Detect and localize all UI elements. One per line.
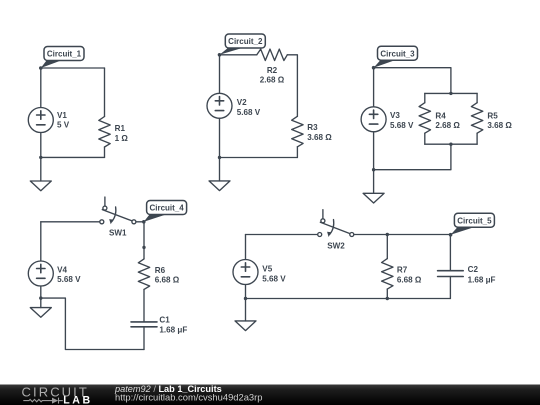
wire V1 top lead <box>40 68 42 108</box>
svg-text:Circuit_5: Circuit_5 <box>457 216 492 225</box>
wire C2 top lead <box>449 235 451 271</box>
wire switch to rail right circuit5 <box>354 234 451 236</box>
callout Circuit_5 <box>451 213 495 235</box>
svg-text:5 V: 5 V <box>57 121 70 130</box>
svg-text:R4: R4 <box>435 111 446 120</box>
voltage source V5 <box>233 260 258 285</box>
svg-text:Circuit_1: Circuit_1 <box>47 50 82 59</box>
callout Circuit_1 <box>41 47 84 69</box>
wire R2 right stub and corner <box>287 55 297 117</box>
ground circuit1 <box>40 157 42 181</box>
svg-text:5.68 V: 5.68 V <box>262 274 286 283</box>
callout Circuit_3 <box>374 46 418 67</box>
svg-text:R5: R5 <box>487 111 498 120</box>
ground circuit4 <box>40 298 42 308</box>
wire C1 bottom to rail <box>143 327 145 350</box>
wire node down to R6 <box>143 222 145 259</box>
svg-text:1.68 μF: 1.68 μF <box>159 326 187 335</box>
svg-text:R2: R2 <box>267 66 278 75</box>
svg-text:5.68 V: 5.68 V <box>57 275 81 284</box>
voltage source V1 <box>28 108 53 133</box>
resistor R5 <box>471 103 482 134</box>
svg-text:R6: R6 <box>155 266 166 275</box>
node dot anchor circuit1 <box>39 66 43 70</box>
node dot bottom-left circuit1 <box>39 156 42 159</box>
wire top rail left circuit4 <box>41 221 100 223</box>
wire V5 top lead <box>245 235 247 260</box>
node dot bracket top circuit3 <box>449 92 452 95</box>
wire bottom rail circuit4 <box>41 298 144 349</box>
wire bottom rail circuit5 <box>246 298 451 300</box>
resistor R6 <box>138 259 149 290</box>
wire V2 top lead <box>219 55 221 94</box>
wire R4 top stub <box>424 93 426 102</box>
svg-text:Circuit_2: Circuit_2 <box>228 37 263 46</box>
svg-text:1.68 μF: 1.68 μF <box>468 275 496 284</box>
wire bottom bracket parallel <box>425 143 477 145</box>
svg-text:5.68 V: 5.68 V <box>390 121 414 130</box>
node dot R7 bottom <box>386 297 389 300</box>
resistor R1 <box>99 117 110 148</box>
svg-text:2.68 Ω: 2.68 Ω <box>435 121 460 130</box>
svg-text:SW1: SW1 <box>109 228 127 237</box>
wire R4 bottom stub <box>424 133 426 144</box>
wire top rail circuit3 <box>374 68 451 94</box>
wire R5 bottom stub <box>476 133 478 144</box>
wire bottom rail circuit1 <box>41 156 105 158</box>
node dot V5 bottom <box>244 297 247 300</box>
wire V4 top lead <box>40 222 42 261</box>
voltage source V2 <box>207 93 232 118</box>
svg-text:V4: V4 <box>57 265 67 274</box>
svg-text:C1: C1 <box>159 315 170 324</box>
wire R7 bottom stub <box>386 289 388 298</box>
wire top bracket parallel <box>425 92 477 94</box>
node dot bottom-left circuit2 <box>218 156 221 159</box>
voltage source V3 <box>361 107 386 132</box>
wire R6 to C1 <box>143 289 145 322</box>
wire R5 top stub <box>476 93 478 102</box>
wire V3 bottom lead <box>373 132 375 170</box>
callout Circuit_4 <box>144 201 187 222</box>
wire V5 bottom lead <box>245 285 247 299</box>
resistor R3 <box>292 116 303 147</box>
capacitor C1 <box>131 322 157 327</box>
svg-text:R3: R3 <box>307 123 318 132</box>
switch SW1 <box>100 197 136 224</box>
svg-text:6.68 Ω: 6.68 Ω <box>397 275 422 284</box>
ground circuit5 <box>245 299 247 321</box>
wire R1 bottom stub <box>104 147 106 157</box>
voltage source V4 <box>28 261 53 286</box>
svg-text:3.68 Ω: 3.68 Ω <box>307 133 332 142</box>
wire R7 top stub <box>386 235 388 259</box>
switch SW2 <box>318 210 354 237</box>
wire right branch down to R1 <box>104 68 106 117</box>
node dot anchor circuit3 <box>372 66 376 70</box>
wire V1 bottom lead <box>40 133 42 158</box>
resistor R2 <box>257 49 288 60</box>
svg-text:1 Ω: 1 Ω <box>115 134 129 143</box>
wire V3 top lead <box>373 68 375 107</box>
wire bottom rail circuit3 <box>374 144 451 170</box>
wire C2 bottom lead <box>449 277 451 299</box>
node dot anchor circuit2 <box>218 53 222 57</box>
svg-text:2.68 Ω: 2.68 Ω <box>260 76 285 85</box>
svg-text:SW2: SW2 <box>327 241 345 250</box>
wire R3 bottom stub <box>296 147 298 158</box>
svg-text:V3: V3 <box>390 111 400 120</box>
node dot bracket bottom circuit3 <box>449 143 452 146</box>
svg-text:5.68 V: 5.68 V <box>237 108 261 117</box>
svg-text:V5: V5 <box>262 265 272 274</box>
wire top rail circuit1 <box>41 67 105 69</box>
node dot R7 top <box>386 233 389 236</box>
capacitor C2 <box>438 271 464 277</box>
node dot anchor circuit4 <box>142 220 146 224</box>
wire top-left to R2 <box>220 54 257 56</box>
resistor R4 <box>419 103 430 134</box>
wire V2 bottom lead <box>219 118 221 157</box>
svg-text:http://circuitlab.com/cvshu49d: http://circuitlab.com/cvshu49d2a3rp <box>115 392 262 403</box>
svg-text:Circuit_3: Circuit_3 <box>380 49 415 58</box>
callout Circuit_2 <box>220 34 266 55</box>
resistor R7 <box>382 259 393 290</box>
logo squiggle resistor+diode <box>23 398 63 404</box>
node dot anchor circuit5 <box>449 233 453 237</box>
svg-text:C2: C2 <box>468 265 479 274</box>
wire switch to node circuit4 <box>136 221 144 223</box>
svg-text:R1: R1 <box>115 124 126 133</box>
ground circuit3 <box>373 170 375 194</box>
node dot V4 bottom <box>39 296 42 299</box>
ground circuit2 <box>219 158 221 181</box>
svg-text:3.68 Ω: 3.68 Ω <box>487 121 512 130</box>
svg-text:V1: V1 <box>57 111 67 120</box>
svg-text:V2: V2 <box>237 98 247 107</box>
wire V4 bottom lead <box>40 286 42 298</box>
svg-text:LAB: LAB <box>63 395 93 405</box>
node dot bottom-left circuit3 <box>372 168 375 171</box>
svg-text:6.68 Ω: 6.68 Ω <box>155 276 180 285</box>
wire bottom rail circuit2 <box>220 157 298 159</box>
wire top rail left circuit5 <box>246 234 318 236</box>
node dot mid wire circuit4 <box>142 246 145 249</box>
svg-text:Circuit_4: Circuit_4 <box>149 204 184 213</box>
svg-text:R7: R7 <box>397 266 408 275</box>
